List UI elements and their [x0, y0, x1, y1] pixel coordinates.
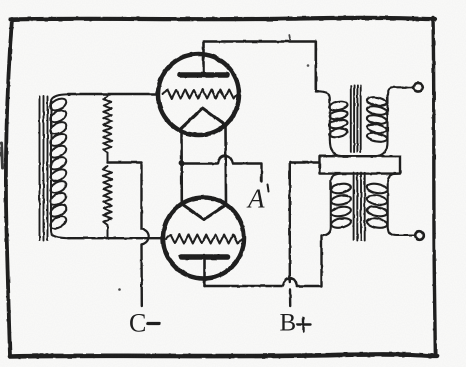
wire: C- lead lower stub [140, 245, 143, 307]
wire: V2 plate to T3 primary with hop over B+ lead [205, 236, 322, 287]
transformer T3 core [354, 173, 365, 241]
transformer T1 core [40, 96, 48, 241]
tube V1 plate [180, 72, 227, 78]
transformer T1 secondary coil [48, 94, 70, 238]
scan speck [118, 288, 121, 291]
svg-text:A: A [246, 184, 265, 214]
wire: T1 secondary bottom to grid of V2 [68, 237, 164, 239]
tube V1 envelope [158, 54, 239, 135]
wire: T1 secondary top to grid of V1 [68, 93, 159, 95]
wire: B+ lead from bus [290, 163, 320, 283]
tube V1 grid [163, 90, 238, 99]
wire: resistor centre tap to C- lead [108, 163, 142, 230]
wire: B+ lower stub [289, 290, 292, 306]
scan tick top [288, 35, 291, 40]
scan speck [244, 163, 246, 165]
resistor R1 (upper half of grid leak) [103, 94, 111, 163]
label plus after B [297, 318, 310, 332]
transformer T3 secondary coil [366, 174, 414, 236]
bus: output transformers common connection [320, 156, 401, 173]
wire: top lead from V1 plate to T2 primary [204, 42, 319, 92]
wire: C- lead hop over grid return wire [142, 229, 149, 245]
tube V1 filament [181, 108, 226, 129]
wire: A lead with hop over right filament leg [182, 156, 262, 182]
wire: V2 plate lead down [203, 257, 206, 286]
label minus after C [148, 322, 160, 325]
transformer T2 core [351, 86, 361, 153]
tube V2 plate [182, 254, 228, 260]
wire: filament right leg V1 to V2 [224, 126, 227, 205]
tube V2 envelope [163, 198, 244, 279]
terminal: T2 secondary output [414, 83, 423, 92]
wire: filament left leg V1 to V2 [180, 131, 183, 204]
resistor R2 (lower half of grid leak) [103, 166, 111, 238]
transformer T2 secondary coil [366, 87, 413, 156]
transformer T2 primary coil [318, 91, 348, 156]
terminal: T3 secondary output [415, 231, 424, 240]
wire: V1 plate lead [202, 42, 205, 76]
tick mark near A [268, 185, 269, 192]
scan smudge left edge [2, 143, 3, 168]
junction: filament / A lead [179, 161, 185, 167]
transformer T3 primary coil [322, 174, 352, 236]
tube V2 filament [182, 204, 227, 220]
svg-text:B: B [280, 310, 297, 337]
svg-text:C: C [129, 309, 146, 338]
tube V2 grid [166, 235, 242, 244]
scan speck [307, 64, 310, 67]
